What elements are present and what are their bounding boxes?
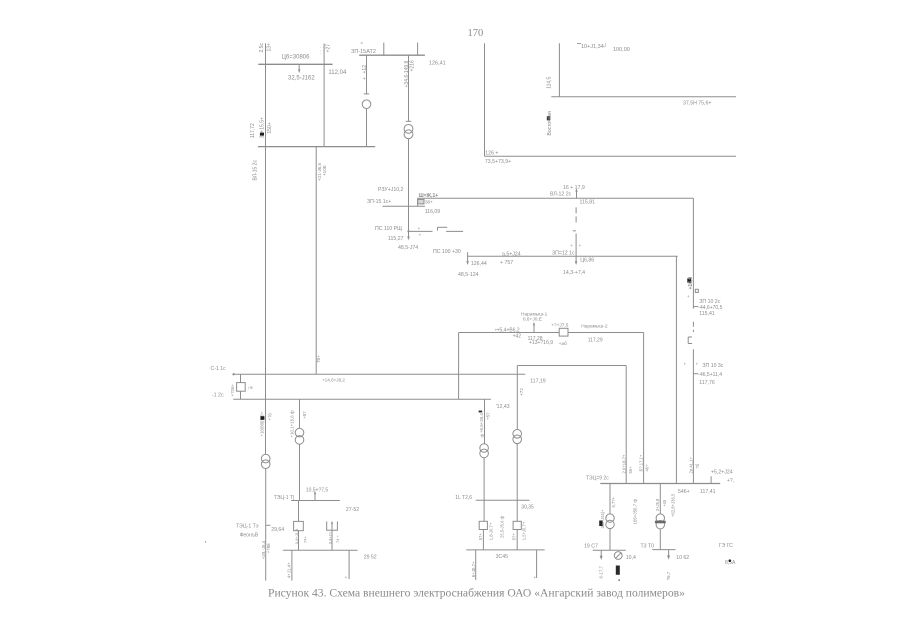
- svg-text:^: ^: [361, 42, 364, 48]
- PS100 drop with arrow: [467, 252, 469, 262]
- svg-text:4+J1,4+: 4+J1,4+: [287, 562, 292, 578]
- svg-text:+10Е: +10Е: [322, 165, 327, 176]
- right corridor V676: [675, 256, 677, 483]
- svg-text:+13+?1б,9: +13+?1б,9: [529, 340, 553, 346]
- svg-text:6-17,7: 6-17,7: [599, 565, 604, 578]
- svg-text:↑≡: ↑≡: [248, 386, 254, 392]
- svg-text:10+J1,34┘: 10+J1,34┘: [581, 43, 608, 50]
- rot label Vostochnaya: [547, 116, 550, 120]
- tick on V366: [364, 93, 369, 95]
- svg-text:+5,4+В6,2: +5,4+В6,2: [497, 327, 520, 333]
- svg-text:150+: 150+: [267, 122, 273, 133]
- svg-text:546+: 546+: [678, 489, 690, 495]
- tick on V408: [406, 120, 411, 122]
- svg-text:117,76: 117,76: [699, 380, 715, 386]
- svg-text:1,5+J0,7+: 1,5+J0,7+: [522, 521, 527, 540]
- small dash: [573, 230, 576, 232]
- svg-text:ЗП 10 3с: ЗП 10 3с: [702, 363, 723, 369]
- feeder below H8 left: [291, 550, 293, 580]
- svg-text:ЗП-15АТ2: ЗП-15АТ2: [351, 49, 376, 55]
- wire V299 lower: [299, 444, 301, 500]
- svg-text:0,6+J0,Е: 0,6+J0,Е: [523, 317, 542, 323]
- svg-text:+: +: [418, 227, 421, 232]
- svg-text:115,41: 115,41: [699, 311, 715, 317]
- wire V408 upper: [408, 55, 410, 121]
- line H2: [485, 155, 737, 157]
- svg-text:46+: 46+: [645, 464, 650, 472]
- svg-text:100,00: 100,00: [613, 47, 630, 53]
- bridge right down V626: [625, 366, 627, 484]
- svg-text:30,35: 30,35: [521, 504, 534, 510]
- svg-text:32,5-J162: 32,5-J162: [288, 76, 315, 82]
- svg-text:117,19: 117,19: [530, 378, 546, 384]
- feeder below H7 right: [536, 550, 538, 578]
- svg-text:117,29: 117,29: [588, 337, 603, 343]
- svg-text:10,5+?7,5: 10,5+?7,5: [306, 488, 329, 494]
- line H374 (S-1 1s): [233, 373, 525, 375]
- svg-text:74+: 74+: [303, 536, 308, 543]
- svg-text:+: +: [495, 329, 498, 334]
- svg-text:ПС 110 РЩ: ПС 110 РЩ: [375, 226, 402, 232]
- svg-text:10 62: 10 62: [676, 555, 689, 561]
- small square mark: [695, 289, 698, 292]
- svg-text:+62,8+J36,5: +62,8+J36,5: [671, 493, 676, 517]
- wire V408 below ZP-15 bus: [408, 206, 410, 237]
- svg-text:126 +: 126 +: [485, 150, 498, 156]
- feeder V610: [609, 484, 611, 514]
- stub PS110 right: [409, 230, 433, 232]
- svg-text:56+: 56+: [628, 466, 633, 474]
- tiny speck: [205, 541, 206, 542]
- svg-text:29,64: 29,64: [271, 527, 284, 533]
- wire V316: [315, 147, 317, 375]
- svg-text:+16,9: +16,9: [688, 277, 694, 290]
- top-right vertical V484: [484, 43, 486, 156]
- bus H7 (30,45): [466, 549, 544, 551]
- svg-text:3С45: 3С45: [496, 554, 509, 560]
- ZP-12 arrow up to H3: [576, 191, 578, 198]
- svg-text:+70: +70: [268, 412, 273, 420]
- svg-text:10,4: 10,4: [626, 555, 636, 561]
- bold tick: [260, 133, 264, 136]
- V693 lower solid: [692, 349, 694, 483]
- svg-text:+?26+: +?26+: [230, 384, 235, 397]
- svg-text:?б: ?б: [695, 463, 700, 468]
- svg-text:+10|5б|(8,5+: +10|5б|(8,5+: [260, 411, 265, 436]
- svg-text:ФеонъВ: ФеонъВ: [240, 532, 259, 538]
- svg-text:48,5-J74: 48,5-J74: [398, 245, 418, 251]
- feeder below H8 right: [348, 550, 350, 579]
- arrow below 19S7: [600, 550, 602, 556]
- stub above bus C left: [383, 43, 385, 56]
- line H3 to ZP-12 / ZP-10: [418, 197, 694, 199]
- svg-text:6+J0,7+: 6+J0,7+: [471, 561, 476, 577]
- S-1 coupling box: [237, 383, 246, 392]
- svg-text:170: 170: [468, 28, 484, 39]
- svg-text:а,5+J24: а,5+J24: [502, 251, 521, 257]
- svg-text:29 52: 29 52: [364, 554, 377, 560]
- wire V408 to ZP-15 bus: [408, 139, 410, 207]
- naramy arrow up: [533, 325, 535, 333]
- svg-text:ф: ф: [480, 434, 485, 438]
- wire V299: [299, 399, 301, 428]
- svg-text:115,81: 115,81: [580, 200, 596, 206]
- arrow up on TEC-1 bus: [314, 494, 316, 501]
- svg-text:+: +: [419, 234, 422, 239]
- svg-text:5,7?+: 5,7?+: [611, 496, 616, 507]
- svg-text:Ц6,86: Ц6,86: [580, 257, 594, 263]
- svg-text:116,09: 116,09: [425, 209, 441, 215]
- earthing circle symbol: [614, 552, 622, 560]
- svg-text:+: +: [534, 576, 537, 581]
- tick +5,2+J24: [710, 476, 712, 483]
- svg-text:?5,7: ?5,7: [666, 571, 671, 580]
- naramy left corner wire: [458, 333, 460, 400]
- right corridor V693 upper solid: [692, 198, 694, 308]
- svg-text:1L Т2,6: 1L Т2,6: [455, 495, 472, 501]
- svg-text:ТЭЦ-1 Т|: ТЭЦ-1 Т|: [274, 495, 295, 501]
- svg-text:+: +: [345, 576, 348, 581]
- feeder V660: [659, 484, 661, 514]
- svg-text:'12,43: '12,43: [496, 404, 510, 410]
- svg-text:+12: +12: [362, 65, 368, 74]
- svg-text:-1 2с: -1 2с: [212, 392, 224, 398]
- svg-text:+?+J7,5: +?+J7,5: [551, 322, 569, 328]
- wire V324: [323, 44, 325, 147]
- V693 dashed break: [692, 322, 694, 332]
- tick ZP10-3s: [693, 373, 698, 375]
- naramy right corner wire down: [643, 333, 645, 484]
- svg-text:25,5-J5,6 ф: 25,5-J5,6 ф: [500, 515, 505, 538]
- svg-text:5?+: 5?+: [512, 533, 517, 541]
- svg-text:0,4+7=: 0,4+7=: [328, 531, 333, 544]
- svg-text:+8,5+39,4: +8,5+39,4: [479, 413, 484, 433]
- bus B (110kV busbar): [258, 146, 375, 148]
- svg-text:112,04: 112,04: [328, 70, 347, 76]
- svg-text:Т3 Т0: Т3 Т0: [641, 543, 655, 549]
- svg-text:+: +: [570, 244, 573, 249]
- svg-text:+: +: [362, 77, 368, 80]
- tick ZP10-2s: [693, 306, 698, 308]
- disconnector step: [437, 227, 439, 230]
- bridge rect top: [517, 365, 626, 367]
- svg-text:+: +: [687, 294, 690, 299]
- svg-text:14,3-+7,4: 14,3-+7,4: [563, 270, 585, 276]
- svg-text:ВЛ-12 2с: ВЛ-12 2с: [550, 191, 572, 197]
- feeder below H7 left: [475, 550, 477, 580]
- bus H5 TEC-9 2s: [600, 483, 720, 485]
- bracket: [687, 337, 689, 344]
- svg-text:-44,6+70,5: -44,6+70,5: [698, 305, 722, 311]
- svg-text:Восточная: Восточная: [547, 111, 553, 136]
- transformer on V299: [295, 428, 304, 437]
- wire V265 lower section to TEC-1: [265, 469, 267, 581]
- svg-text:Ц6=30806: Ц6=30806: [282, 55, 311, 61]
- svg-text:115,27: 115,27: [388, 236, 404, 242]
- transformer on V660: [656, 514, 664, 522]
- svg-text:0,4+J1,4: 0,4+J1,4: [294, 528, 299, 544]
- svg-text:117,41: 117,41: [700, 489, 716, 495]
- breaker box TEC1-a: [294, 521, 304, 530]
- bus C (VL-15AT2 busbar): [359, 54, 425, 56]
- svg-text:Нарамыш-2: Нарамыш-2: [581, 324, 608, 330]
- svg-text:117,72: 117,72: [250, 123, 256, 138]
- arrow load on bus A: [298, 64, 300, 70]
- svg-text:РЗУ+J10,2: РЗУ+J10,2: [378, 187, 404, 193]
- transformer on V265: [261, 454, 270, 463]
- svg-text:+: +: [684, 362, 687, 367]
- line H4 (PS100 - ZP12 - right corridor): [468, 255, 678, 257]
- breaker box T26-b: [513, 521, 521, 529]
- svg-text:+аб: +аб: [559, 341, 567, 347]
- bus TEC-1 1s: [291, 500, 340, 502]
- bus A (Ш6 110kV busbar top-left): [258, 63, 332, 65]
- dark overlap on V660 transformer: [655, 521, 666, 524]
- svg-text:+216: +216: [410, 60, 416, 71]
- svg-text:ГЭ ГС: ГЭ ГС: [719, 543, 733, 549]
- bus H6 (1s T2,6): [476, 499, 530, 501]
- stub above bus C right: [417, 43, 419, 56]
- svg-text:ТЭЦ=9 2с: ТЭЦ=9 2с: [586, 475, 609, 481]
- svg-text:+5?: +5?: [302, 411, 307, 419]
- tick on V265 at TEC-1: [266, 524, 271, 526]
- breaker box T26-a: [479, 521, 487, 529]
- svg-text:2и,41,1+: 2и,41,1+: [689, 457, 694, 474]
- svg-text:ТЭЦ-1 Тэ: ТЭЦ-1 Тэ: [236, 523, 259, 529]
- svg-text:126,41: 126,41: [429, 61, 446, 67]
- transformer on V517: [513, 430, 522, 439]
- svg-text:114,5: 114,5: [547, 76, 553, 88]
- svg-text:165=J50,7 ф: 165=J50,7 ф: [633, 499, 638, 525]
- step up to line H3: [417, 198, 419, 206]
- svg-text:ЗП=12 1с: ЗП=12 1с: [552, 250, 575, 256]
- svg-text:73,5+73,9+: 73,5+73,9+: [485, 159, 511, 165]
- wire V366 lower: [366, 109, 368, 147]
- svg-text:С-1 1с: С-1 1с: [211, 366, 227, 372]
- svg-text:ВЛ-15 2с: ВЛ-15 2с: [253, 160, 259, 181]
- rot bold +16,9: [687, 278, 691, 282]
- svg-text:1,8-J0,7+: 1,8-J0,7+: [489, 522, 494, 540]
- svg-text:-46,5+11,4: -46,5+11,4: [698, 372, 722, 378]
- svg-text:16 + 17,9: 16 + 17,9: [563, 185, 585, 191]
- svg-text:2,5с: 2,5с: [259, 43, 265, 53]
- dark blob: [260, 416, 264, 420]
- line H1: [551, 96, 736, 98]
- svg-text:+27: +27: [326, 44, 332, 53]
- svg-text:+: +: [579, 244, 582, 249]
- svg-text:Нарамыш-1: Нарамыш-1: [521, 312, 548, 318]
- bus ZP-15 1s: [383, 205, 425, 207]
- svg-text:38+: 38+: [425, 200, 433, 205]
- line H399 (S-1 2s): [233, 398, 491, 400]
- svg-text:48,5-124: 48,5-124: [458, 272, 479, 278]
- bus H332 naramy: [459, 332, 644, 334]
- arrow PS110 down: [407, 237, 410, 241]
- bridge left down: [516, 366, 518, 430]
- dark block: [616, 566, 620, 575]
- arrow below T3T0: [668, 550, 670, 557]
- svg-text:+14,6+J6,2: +14,6+J6,2: [322, 377, 345, 382]
- svg-text:+10,1+15,6 ф: +10,1+15,6 ф: [290, 410, 295, 437]
- wire VA484: [484, 399, 486, 444]
- top-right vertical V559: [558, 43, 560, 97]
- svg-text:78+: 78+: [316, 355, 321, 363]
- svg-text:ЗП-15 1с+: ЗП-15 1с+: [367, 199, 391, 205]
- svg-text:2,6+18,7+: 2,6+18,7+: [622, 454, 627, 473]
- svg-text:57+: 57+: [478, 533, 483, 541]
- svg-text:Рисунок 43. Схема внешнего эле: Рисунок 43. Схема внешнего электроснабже…: [268, 587, 685, 600]
- bus 19 S7: [593, 549, 626, 551]
- svg-text:13+: 13+: [267, 43, 273, 52]
- svg-text:ПС 100 +30: ПС 100 +30: [433, 249, 461, 255]
- svg-text:+5,2+J24: +5,2+J24: [711, 470, 733, 476]
- naramy switch box: [559, 328, 568, 336]
- junction dot PS110: [407, 230, 409, 232]
- ZP-12 wire through H4: [575, 234, 577, 263]
- svg-text:+5?: +5?: [486, 412, 491, 420]
- svg-text:+42: +42: [513, 334, 522, 340]
- svg-text:+45: +45: [662, 499, 667, 507]
- bus T3 T0: [652, 549, 675, 551]
- wire V265 main left feeder: [265, 43, 267, 454]
- svg-text:+?88: +?88: [266, 543, 271, 553]
- svg-text:+: +: [696, 362, 699, 367]
- breaker box 38: [418, 199, 424, 204]
- svg-text:27-52: 27-52: [346, 507, 359, 513]
- svg-text:74 +: 74 +: [335, 534, 340, 543]
- wire V366 upper: [366, 55, 368, 94]
- svg-text:+?,: +?,: [727, 478, 734, 484]
- svg-text:37,5Н 75,6+: 37,5Н 75,6+: [683, 100, 711, 106]
- bus H8 (29,52): [283, 549, 358, 551]
- transformer on V610: [606, 514, 614, 522]
- transformer on VA484: [480, 444, 489, 453]
- svg-text:126,44: 126,44: [471, 261, 487, 267]
- svg-text:+72: +72: [519, 388, 524, 396]
- svg-text:2+J5,8: 2+J5,8: [655, 498, 660, 511]
- transformer T2 two windings: [404, 124, 413, 133]
- ZP-12 dashed riser: [575, 207, 577, 222]
- breaker box TEC1-b open top with arrow: [327, 521, 338, 530]
- transformer T1 circle: [362, 100, 371, 109]
- svg-text:+ 757: + 757: [500, 260, 513, 266]
- svg-text:19 С7: 19 С7: [584, 543, 598, 549]
- svg-text:Ш=Ж,1+: Ш=Ж,1+: [419, 193, 439, 199]
- svg-text:Б?,17,1+: Б?,17,1+: [639, 454, 644, 471]
